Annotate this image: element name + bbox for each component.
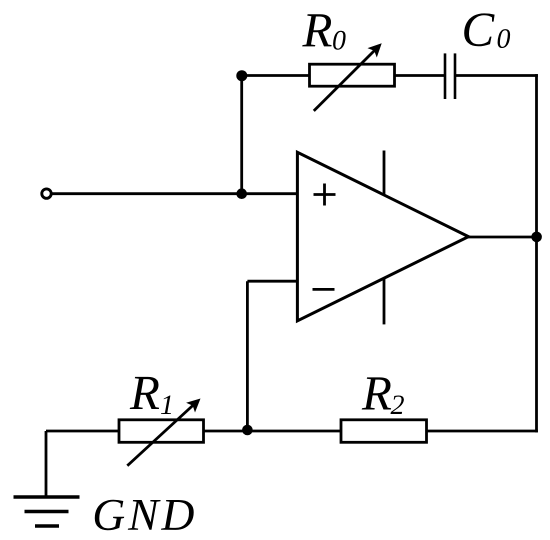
op-amp bottom power pin (383, 278, 386, 324)
wire output (468, 236, 537, 239)
wire C0 to top-right corner (456, 74, 538, 77)
wire input horizontal (52, 192, 298, 195)
node dot top junction (236, 70, 247, 81)
ground symbol (14, 497, 80, 526)
capacitor C0 (445, 53, 455, 99)
wire bottom left to R1 (46, 430, 119, 433)
node dot feedback junction (242, 425, 253, 436)
label R1 (130, 377, 171, 414)
wire right vertical (535, 74, 538, 432)
label R2 (362, 377, 404, 414)
R1 arrowhead (186, 399, 200, 413)
op-amp plus input symbol (314, 184, 336, 206)
R0 wiper arrow (314, 50, 376, 111)
wire R1 to R2 (204, 430, 342, 433)
resistor R2 (341, 420, 427, 443)
op-amp U1 triangle (297, 152, 468, 320)
node dot input junction (236, 188, 247, 199)
resistor R1 (119, 420, 204, 443)
wire inverting input horizontal (247, 280, 297, 283)
R0 arrowhead (368, 43, 382, 57)
op-amp top power pin (383, 151, 386, 195)
label R0 (302, 14, 345, 49)
op-amp minus input symbol (313, 288, 335, 291)
input terminal (42, 189, 51, 198)
R1 wiper arrow (127, 404, 194, 465)
wire vertical from input node to top (240, 76, 243, 194)
wire inverting input vertical (246, 281, 249, 431)
node dot output junction (531, 232, 542, 243)
wire R0 to C0 (395, 74, 445, 77)
label C0 (464, 13, 510, 48)
wire R2 to bottom-right corner (427, 430, 538, 433)
GND riser wire (45, 431, 48, 496)
wire top from node to R0 (242, 74, 310, 77)
label GND (95, 500, 194, 531)
resistor R0 (310, 64, 395, 86)
